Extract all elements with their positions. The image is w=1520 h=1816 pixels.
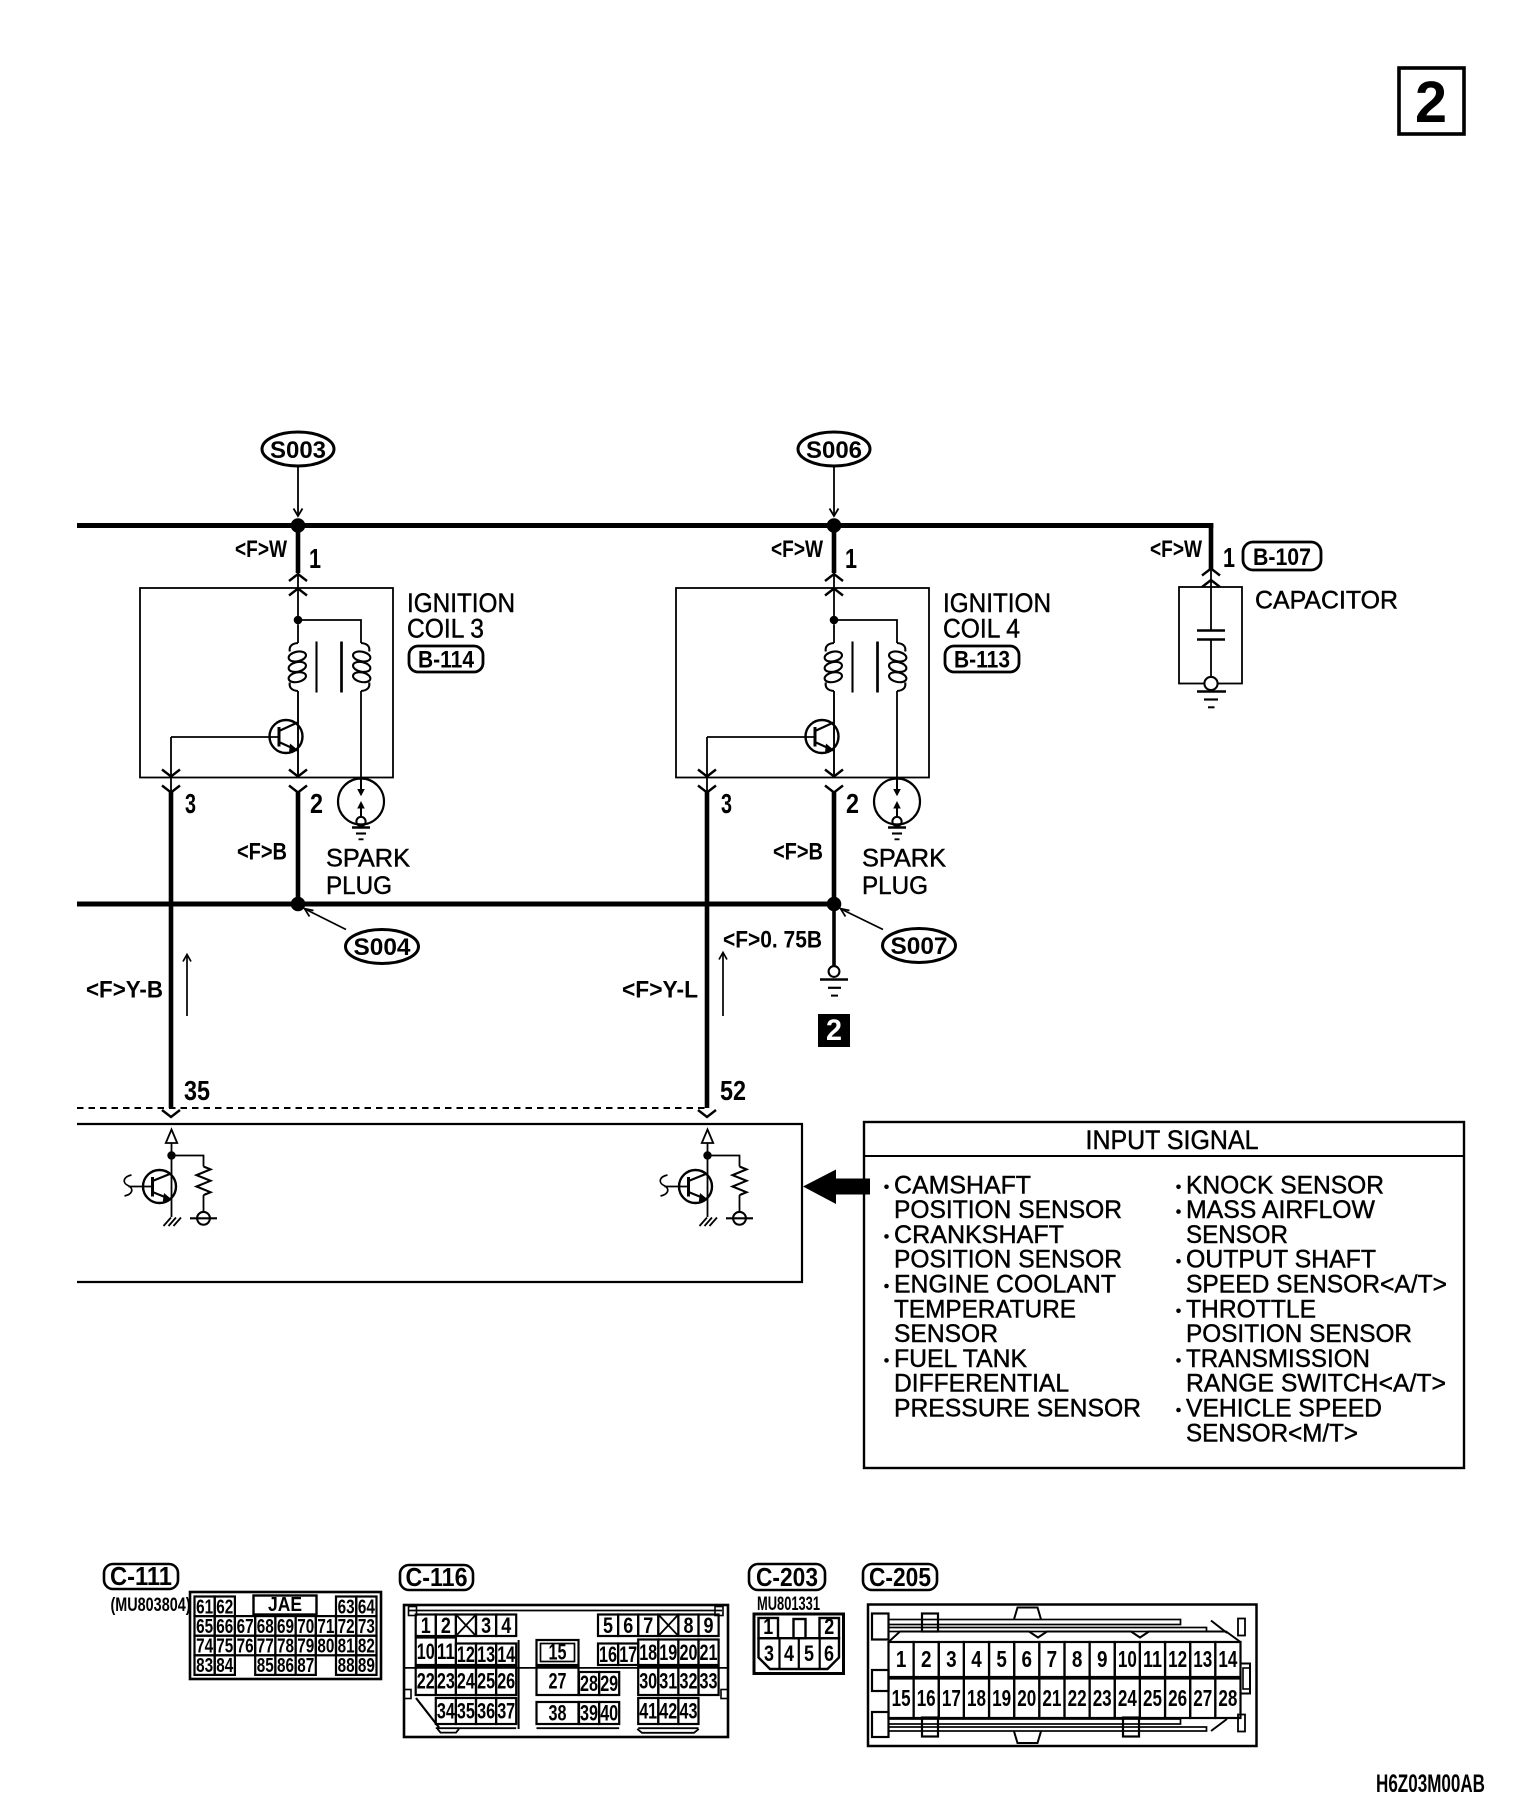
svg-text:9: 9 <box>1097 1646 1108 1672</box>
svg-text:4: 4 <box>784 1641 795 1666</box>
svg-text:12: 12 <box>1168 1646 1187 1672</box>
wire: bottom ground bus <box>77 902 834 907</box>
svg-text:POSITION SENSOR: POSITION SENSOR <box>894 1246 1122 1274</box>
C-116 bottom under-rails and lips <box>436 1727 516 1729</box>
svg-text:POSITION SENSOR: POSITION SENSOR <box>1186 1320 1412 1348</box>
svg-text:4: 4 <box>971 1646 982 1672</box>
svg-text:S003: S003 <box>270 437 326 464</box>
connector C-205 body <box>868 1605 1257 1747</box>
svg-text:POSITION SENSOR: POSITION SENSOR <box>894 1196 1122 1224</box>
svg-text:2: 2 <box>921 1646 932 1672</box>
svg-text:35: 35 <box>457 1699 475 1724</box>
svg-text:TRANSMISSION: TRANSMISSION <box>1186 1345 1370 1373</box>
node: junction S006 on bus <box>827 518 842 533</box>
svg-text:17: 17 <box>619 1642 637 1667</box>
svg-text:RANGE SWITCH<A/T>: RANGE SWITCH<A/T> <box>1186 1370 1446 1398</box>
dashed harness boundary <box>77 1107 707 1109</box>
C-116 row2 right cells <box>598 1644 618 1666</box>
svg-text:C-111: C-111 <box>110 1561 172 1591</box>
svg-text:DIFFERENTIAL: DIFFERENTIAL <box>894 1370 1069 1398</box>
connector label C-116 <box>400 1565 473 1590</box>
svg-text:1: 1 <box>845 543 857 574</box>
svg-text:33: 33 <box>700 1669 718 1694</box>
svg-text:41: 41 <box>639 1699 657 1724</box>
sensor list left column <box>884 1185 889 1190</box>
svg-text:B-113: B-113 <box>954 647 1010 674</box>
svg-text:6: 6 <box>1022 1646 1033 1672</box>
C-116 row4 right cells <box>638 1698 658 1724</box>
svg-text:3: 3 <box>481 1613 491 1638</box>
svg-text:39: 39 <box>580 1701 598 1726</box>
svg-text:24: 24 <box>457 1669 476 1694</box>
wire: top power bus <box>77 523 1213 528</box>
svg-text:27: 27 <box>549 1669 567 1694</box>
svg-text:29: 29 <box>600 1671 618 1696</box>
svg-text:24: 24 <box>1118 1685 1137 1711</box>
splice S003 <box>262 432 334 466</box>
sheet-2 badge <box>818 1014 850 1047</box>
connector label C-205 <box>863 1564 937 1590</box>
svg-text:<F>W: <F>W <box>235 536 287 563</box>
ignition coil 4 circuit graphics <box>660 526 929 1227</box>
svg-text:PLUG: PLUG <box>862 872 928 900</box>
wire: S007 ground drop <box>832 904 836 967</box>
svg-text:14: 14 <box>497 1642 516 1667</box>
svg-text:<F>0. 75B: <F>0. 75B <box>723 927 822 954</box>
connector label C-203 <box>749 1564 825 1590</box>
svg-text:3: 3 <box>721 788 732 819</box>
C-116 internal housing walls <box>404 1667 728 1669</box>
svg-text:18: 18 <box>967 1685 986 1711</box>
svg-text:1: 1 <box>421 1613 431 1638</box>
svg-text:SPARK: SPARK <box>326 845 410 873</box>
capacitor outline box <box>1179 587 1242 684</box>
svg-text:43: 43 <box>680 1699 698 1724</box>
direction arrow Y-L <box>722 953 724 1016</box>
svg-text:36: 36 <box>477 1699 495 1724</box>
wire: capacitor branch drop <box>1209 523 1214 570</box>
svg-text:10: 10 <box>1118 1646 1137 1672</box>
C-116 row2 left cells <box>416 1638 436 1666</box>
svg-text:1: 1 <box>309 543 321 574</box>
svg-text:(MU803804): (MU803804) <box>111 1595 191 1616</box>
C-205 housing top rails <box>889 1620 1181 1625</box>
svg-text:3: 3 <box>185 788 196 819</box>
splice S007 <box>883 929 956 963</box>
svg-text:80: 80 <box>317 1636 334 1658</box>
svg-text:21: 21 <box>700 1640 718 1665</box>
sensor list right column <box>1176 1185 1181 1190</box>
node: junction S003 on bus <box>291 518 306 533</box>
svg-text:CRANKSHAFT: CRANKSHAFT <box>894 1221 1064 1249</box>
svg-text:SPEED SENSOR<A/T>: SPEED SENSOR<A/T> <box>1186 1271 1447 1299</box>
svg-text:VEHICLE SPEED: VEHICLE SPEED <box>1186 1395 1382 1423</box>
connector ref B-113 <box>945 646 1019 672</box>
C-116 row3 left cells <box>416 1667 436 1695</box>
ground symbol under capacitor <box>1197 690 1226 692</box>
svg-text:28: 28 <box>1218 1685 1237 1711</box>
svg-text:4: 4 <box>501 1613 512 1638</box>
node: junction S007 on ground bus <box>827 897 842 912</box>
svg-text:11: 11 <box>1143 1646 1162 1672</box>
svg-text:H6Z03M00AB: H6Z03M00AB <box>1376 1770 1485 1798</box>
svg-text:12: 12 <box>457 1642 475 1667</box>
svg-text:2: 2 <box>824 1614 834 1639</box>
svg-text:15: 15 <box>892 1685 911 1711</box>
svg-text:6: 6 <box>824 1641 834 1666</box>
C-205 bottom tabs <box>922 1718 938 1737</box>
svg-text:22: 22 <box>1068 1685 1087 1711</box>
svg-text:CAMSHAFT: CAMSHAFT <box>894 1171 1031 1199</box>
svg-text:8: 8 <box>1072 1646 1083 1672</box>
svg-text:38: 38 <box>549 1701 567 1726</box>
svg-text:C-203: C-203 <box>756 1562 818 1592</box>
svg-text:MASS AIRFLOW: MASS AIRFLOW <box>1186 1196 1375 1224</box>
svg-text:2: 2 <box>846 788 859 819</box>
svg-text:88: 88 <box>338 1655 355 1677</box>
svg-text:SENSOR: SENSOR <box>1186 1221 1288 1249</box>
svg-text:21: 21 <box>1042 1685 1061 1711</box>
capacitor C1 plates <box>1197 629 1225 632</box>
svg-text:89: 89 <box>358 1655 375 1677</box>
svg-text:13: 13 <box>477 1642 495 1667</box>
svg-text:ENGINE COOLANT: ENGINE COOLANT <box>894 1271 1116 1299</box>
connector C-116 body <box>404 1605 728 1737</box>
svg-text:3: 3 <box>946 1646 957 1672</box>
svg-text:9: 9 <box>704 1613 714 1638</box>
arrow from S007 to junction <box>842 910 883 930</box>
svg-text:20: 20 <box>1017 1685 1036 1711</box>
C-116 row1 left cells <box>416 1615 436 1637</box>
svg-text:C-205: C-205 <box>869 1562 931 1592</box>
svg-text:2: 2 <box>441 1613 451 1638</box>
connector C-203 body <box>754 1614 844 1674</box>
svg-text:7: 7 <box>643 1613 653 1638</box>
C-205 top tabs <box>922 1614 938 1632</box>
svg-text:2: 2 <box>1415 70 1447 135</box>
svg-text:11: 11 <box>437 1639 455 1664</box>
ecu box (open left) <box>77 1124 802 1282</box>
C-111 pin cells <box>195 1597 215 1617</box>
connector C-111 body <box>190 1592 381 1679</box>
C-116 row3 right cells <box>638 1667 658 1695</box>
svg-text:83: 83 <box>196 1655 213 1677</box>
svg-text:87: 87 <box>297 1655 314 1677</box>
C-205 pin cells row1 <box>889 1642 914 1677</box>
C-111 JAE box <box>254 1596 317 1615</box>
svg-text:THROTTLE: THROTTLE <box>1186 1295 1316 1323</box>
svg-text:15: 15 <box>549 1640 567 1665</box>
C-203 row2 outline <box>759 1638 840 1669</box>
svg-text:COIL 4: COIL 4 <box>943 614 1020 644</box>
svg-text:JAE: JAE <box>268 1594 302 1616</box>
wire: arrow from S003 to bus <box>297 466 299 514</box>
svg-text:<F>Y-B: <F>Y-B <box>86 977 163 1004</box>
svg-text:22: 22 <box>417 1669 435 1694</box>
svg-text:28: 28 <box>580 1671 598 1696</box>
svg-text:26: 26 <box>1168 1685 1187 1711</box>
svg-text:30: 30 <box>639 1669 657 1694</box>
C-116 row4 left cells <box>436 1698 456 1724</box>
splice S004 <box>346 930 419 964</box>
svg-text:<F>W: <F>W <box>1150 536 1202 563</box>
svg-text:23: 23 <box>437 1669 455 1694</box>
input signal box <box>864 1122 1464 1468</box>
svg-text:INPUT SIGNAL: INPUT SIGNAL <box>1086 1125 1259 1155</box>
svg-text:19: 19 <box>659 1640 677 1665</box>
svg-text:KNOCK SENSOR: KNOCK SENSOR <box>1186 1171 1384 1199</box>
svg-text:S006: S006 <box>806 437 862 464</box>
svg-text:40: 40 <box>600 1701 618 1726</box>
svg-text:23: 23 <box>1093 1685 1112 1711</box>
svg-text:52: 52 <box>720 1075 746 1106</box>
svg-text:10: 10 <box>417 1639 435 1664</box>
capacitor entry chevrons <box>1202 569 1220 576</box>
svg-text:13: 13 <box>1193 1646 1212 1672</box>
svg-text:20: 20 <box>680 1640 698 1665</box>
svg-text:1: 1 <box>896 1646 907 1672</box>
node: junction S004 on ground bus <box>291 897 306 912</box>
connector ref B-107 <box>1243 542 1321 570</box>
svg-text:34: 34 <box>437 1699 456 1724</box>
svg-text:6: 6 <box>623 1613 633 1638</box>
svg-text:25: 25 <box>1143 1685 1162 1711</box>
C-205 right details <box>1211 1621 1227 1634</box>
wire: arrow from S006 to bus <box>833 466 835 514</box>
svg-text:OUTPUT SHAFT: OUTPUT SHAFT <box>1186 1246 1376 1274</box>
svg-text:1: 1 <box>763 1614 773 1639</box>
svg-text:C-116: C-116 <box>406 1562 468 1592</box>
page number box 2 <box>1399 68 1464 134</box>
svg-text:18: 18 <box>639 1640 657 1665</box>
svg-text:19: 19 <box>992 1685 1011 1711</box>
wire: into capacitor <box>1210 587 1212 631</box>
svg-text:FUEL TANK: FUEL TANK <box>894 1345 1027 1373</box>
svg-text:42: 42 <box>659 1699 677 1724</box>
svg-text:5: 5 <box>603 1613 613 1638</box>
C-116 bottom-left diagonal <box>416 1698 439 1728</box>
C-203 row1 cells <box>759 1618 779 1638</box>
svg-text:76: 76 <box>237 1636 254 1658</box>
svg-text:S004: S004 <box>354 934 412 961</box>
svg-text:2: 2 <box>310 788 323 819</box>
arrow from S004 to junction <box>306 910 346 930</box>
svg-text:1: 1 <box>1223 542 1235 573</box>
C-205 left mount tabs <box>872 1614 889 1640</box>
svg-text:SPARK: SPARK <box>862 845 946 873</box>
svg-text:16: 16 <box>599 1642 617 1667</box>
svg-text:PLUG: PLUG <box>326 872 392 900</box>
svg-text:CAPACITOR: CAPACITOR <box>1255 587 1398 615</box>
ground terminal circle <box>1204 677 1217 690</box>
connector ref B-114 <box>409 646 483 672</box>
svg-text:S007: S007 <box>891 933 948 960</box>
svg-text:COIL 3: COIL 3 <box>407 614 484 644</box>
svg-text:26: 26 <box>497 1669 515 1694</box>
svg-text:<F>B: <F>B <box>237 839 287 866</box>
svg-text:85: 85 <box>257 1655 274 1677</box>
ignition coil 3 circuit graphics <box>124 526 393 1227</box>
svg-text:84: 84 <box>216 1655 234 1677</box>
svg-text:PRESSURE SENSOR: PRESSURE SENSOR <box>894 1395 1141 1423</box>
big arrow from input signal box <box>803 1170 836 1205</box>
ground symbol under S007 <box>820 978 848 981</box>
svg-text:8: 8 <box>684 1613 694 1638</box>
C-205 housing bottom rails <box>889 1719 1181 1724</box>
svg-text:31: 31 <box>659 1669 677 1694</box>
svg-text:86: 86 <box>277 1655 294 1677</box>
svg-text:25: 25 <box>477 1669 495 1694</box>
svg-text:14: 14 <box>1218 1646 1237 1672</box>
svg-text:35: 35 <box>184 1075 210 1106</box>
splice S006 <box>798 432 870 466</box>
wire: capacitor to ground terminal <box>1210 640 1212 678</box>
svg-text:3: 3 <box>764 1641 774 1666</box>
connector label C-111 <box>104 1564 178 1589</box>
direction arrow Y-B <box>186 955 188 1016</box>
svg-text:MU801331: MU801331 <box>757 1594 820 1615</box>
svg-text:SENSOR<M/T>: SENSOR<M/T> <box>1186 1419 1358 1447</box>
svg-text:37: 37 <box>497 1699 515 1724</box>
svg-text:17: 17 <box>942 1685 961 1711</box>
svg-text:B-114: B-114 <box>418 647 475 674</box>
C-205 housing top hat <box>889 1632 1241 1643</box>
svg-text:7: 7 <box>1047 1646 1058 1672</box>
svg-text:27: 27 <box>1193 1685 1212 1711</box>
svg-text:32: 32 <box>680 1669 698 1694</box>
svg-text:5: 5 <box>996 1646 1007 1672</box>
svg-text:B-107: B-107 <box>1253 544 1311 571</box>
svg-text:16: 16 <box>917 1685 936 1711</box>
svg-text:5: 5 <box>804 1641 814 1666</box>
svg-text:2: 2 <box>826 1014 842 1047</box>
svg-text:SENSOR: SENSOR <box>894 1320 998 1348</box>
C-116 row1 right cells <box>598 1615 618 1637</box>
C-205 pin cells row2 <box>889 1679 914 1719</box>
svg-text:<F>B: <F>B <box>773 839 823 866</box>
ground terminal circle <box>829 966 840 977</box>
svg-text:TEMPERATURE: TEMPERATURE <box>894 1295 1076 1323</box>
svg-text:<F>W: <F>W <box>771 536 823 563</box>
C-116 middle cells <box>537 1640 579 1665</box>
svg-text:<F>Y-L: <F>Y-L <box>622 977 698 1004</box>
